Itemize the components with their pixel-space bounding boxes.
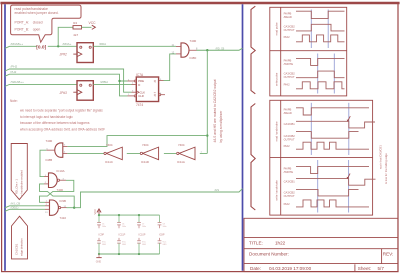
jumper JP2	[73, 81, 93, 101]
bus left	[4, 4, 6, 271]
ground GND	[98, 254, 100, 258]
waveform CA3/CB1 box3	[296, 121, 375, 128]
svg-text:GND: GND	[163, 244, 168, 246]
waveform PA/PB /WRITE box2	[296, 58, 345, 65]
svg-text:such that CA3/CB1: such that CA3/CB1	[378, 145, 382, 169]
waveform CA3/CB2 box3	[296, 132, 359, 139]
waveform PA/PB /WRITE box4	[296, 167, 369, 174]
svg-text:IC11C: IC11C	[105, 160, 113, 164]
svg-text:CA3/CB1: CA3/CB1	[284, 122, 296, 126]
pin numbers 11 12 8	[172, 44, 199, 55]
svg-text:100n: 100n	[102, 226, 106, 228]
supply VCC arrow	[92, 25, 96, 29]
svg-text:Document Number:: Document Number:	[249, 252, 289, 257]
junction on /RDA	[57, 45, 59, 47]
svg-text:CA1/CB1: CA1/CB1	[15, 243, 19, 255]
pennant label handshake enabled (down arrow box)	[11, 144, 27, 200]
wire R2 to VCC	[82, 26, 92, 28]
inverter chain wire	[67, 152, 207, 154]
svg-text:C5: C5	[102, 223, 104, 225]
wire feedback IC8D to IC8B input1	[67, 136, 207, 147]
svg-text:PHI2: PHI2	[284, 35, 290, 39]
capacitor column 1 (C + IC9P power)	[97, 215, 101, 254]
supply VCC bypass	[97, 209, 101, 213]
svg-text:100n: 100n	[142, 226, 146, 228]
svg-text:5/7: 5/7	[378, 266, 385, 271]
wire IC8B out down to IC10A	[40, 150, 46, 176]
svg-text:= handshake enabled: = handshake enabled	[20, 170, 24, 196]
svg-text:7410: 7410	[60, 216, 67, 220]
svg-text:/WRITE: /WRITE	[284, 170, 294, 174]
svg-text:CA3/CB2: CA3/CB2	[284, 24, 296, 28]
svg-text:IC9P: IC9P	[99, 233, 105, 236]
IC8B pins	[46, 146, 67, 153]
wire /PH2	[5, 69, 132, 92]
svg-text:/WRITE: /WRITE	[284, 62, 294, 66]
brace 1	[251, 6, 255, 94]
svg-text:PHI2: PHI2	[284, 202, 290, 206]
wire PH2 to PRE/CLR	[5, 74, 128, 96]
inverter IC11A	[177, 147, 195, 160]
svg-text:IC11P: IC11P	[119, 233, 126, 236]
brace 2	[251, 104, 255, 211]
waveform PHI2 box4	[296, 200, 369, 207]
svg-text:4k7: 4k7	[73, 33, 78, 37]
svg-text:IC8D: IC8D	[190, 56, 198, 60]
IC7A pin names	[138, 79, 157, 98]
inverter IC11C	[104, 147, 122, 160]
svg-text:JP#2: JP#2	[60, 53, 67, 57]
svg-text:7404: 7404	[142, 143, 149, 147]
svg-text:VCC: VCC	[93, 209, 97, 215]
svg-text:4/LS and HS are routed to CA2/: 4/LS and HS are routed to CA2/CB2 output	[213, 79, 217, 142]
IC8D pins	[176, 46, 197, 54]
svg-text:7404: 7404	[178, 143, 185, 147]
svg-text:PA/PB: PA/PB	[284, 58, 292, 62]
svg-text:/READ: /READ	[284, 15, 292, 19]
cursor lines box4	[317, 160, 319, 213]
junctions on rails	[98, 214, 100, 216]
svg-text:100n: 100n	[163, 226, 167, 228]
waveform PHI2 box3	[296, 142, 369, 149]
svg-text:GND: GND	[102, 244, 107, 246]
wire GND rail	[99, 253, 160, 255]
bus right	[242, 4, 244, 271]
svg-text:REV:: REV:	[383, 252, 394, 257]
svg-text:CA3/CB2: CA3/CB2	[284, 134, 296, 138]
wire /HS to bus	[74, 189, 242, 208]
nand IC8B (mirrored)	[55, 143, 63, 157]
svg-text:to interrupt logic and handsha: to interrupt logic and handshake logic	[20, 115, 73, 119]
svg-text:CA3/CB1: CA3/CB1	[284, 179, 296, 183]
svg-text:C8: C8	[163, 223, 165, 225]
waveform CA3/CB2 box1	[296, 24, 345, 31]
svg-text:1h22: 1h22	[275, 240, 286, 245]
svg-text:OUTPUT: OUTPUT	[284, 75, 295, 79]
svg-text:JP#3: JP#3	[60, 91, 67, 95]
junction feedback	[206, 134, 208, 136]
svg-text:write pulse: write pulse	[274, 72, 278, 86]
IC7A pin numbers	[128, 79, 162, 96]
svg-text:/PH2: /PH2	[11, 65, 18, 69]
svg-text:read handshake: read handshake	[274, 121, 278, 142]
svg-text:7404: 7404	[106, 143, 113, 147]
svg-text:/WDAB++: /WDAB++	[11, 80, 25, 84]
cursor lines box2	[317, 54, 319, 94]
svg-text:OUTPUT: OUTPUT	[284, 194, 295, 198]
svg-text:IC11D: IC11D	[141, 160, 149, 164]
svg-text:IC10A: IC10A	[57, 169, 65, 173]
waveform CA3/CB2 box2	[296, 71, 345, 78]
note text	[10, 99, 105, 132]
resistor R2	[73, 26, 82, 29]
wire Q to pin12	[164, 54, 177, 81]
svg-text:7400: 7400	[46, 139, 53, 143]
waveform PA/PB /READ box3	[296, 108, 369, 115]
svg-text:because of the difference betw: because of the difference between what h…	[20, 121, 90, 125]
svg-text:IC8P: IC8P	[159, 233, 165, 236]
svg-text:read pulse: read pulse	[274, 22, 278, 36]
svg-text:enabled when jumper closed.: enabled when jumper closed.	[15, 11, 59, 15]
waveform PA/PB /READ box1	[296, 11, 345, 18]
svg-text:7474: 7474	[136, 103, 143, 107]
capacitor column 2 (C + IC11P power)	[117, 215, 121, 254]
pennant label edge detection (up arrow box)	[12, 216, 28, 259]
svg-text:GND: GND	[142, 244, 147, 246]
svg-text:OUTPUT: OUTPUT	[284, 28, 295, 32]
svg-text:R2: R2	[73, 21, 77, 25]
wire /HS_CB from bus	[5, 206, 45, 208]
wire /OE(1) from bus	[5, 209, 45, 211]
svg-text:PA/PB: PA/PB	[284, 11, 292, 15]
svg-text:C6: C6	[122, 223, 124, 225]
svg-text:PHI2: PHI2	[284, 82, 290, 86]
svg-text:/RDA+: /RDA+	[63, 42, 72, 46]
note bubble (callout)	[11, 5, 81, 42]
svg-text:/HS_CB: /HS_CB	[11, 202, 21, 206]
wire to R2	[58, 27, 73, 46]
svg-text:edge detection: edge detection	[20, 238, 24, 256]
wire VCC rail	[99, 214, 160, 216]
svg-text:IC9B: IC9B	[60, 199, 66, 203]
svg-text:when accessing ORA-address 0x0: when accessing ORA-address 0x01 and ORA-…	[20, 128, 105, 132]
svg-text:IC7A: IC7A	[136, 73, 144, 77]
svg-text:PA/PB: PA/PB	[284, 166, 292, 170]
svg-text:PORT_A: closed: PORT_A: closed	[15, 20, 43, 24]
svg-text:IC11A: IC11A	[177, 160, 185, 164]
timing box 3: read handshake	[270, 100, 373, 215]
svg-text:CLR: CLR	[138, 94, 144, 98]
nand IC10A	[49, 173, 60, 188]
svg-text:100n: 100n	[122, 226, 126, 228]
waveform PHI2 box2	[296, 82, 345, 89]
flipflop IC7A	[136, 77, 158, 102]
note bubble text	[15, 7, 59, 31]
svg-text:/RDA: /RDA	[99, 42, 106, 46]
svg-text:7400: 7400	[190, 39, 197, 43]
svg-text:PHI2: PHI2	[284, 144, 290, 148]
svg-text:PORT_B: open: PORT_B: open	[15, 28, 41, 32]
svg-text:D: D	[138, 83, 140, 87]
svg-text:TITLE:: TITLE:	[249, 240, 263, 245]
svg-text:OUTPUT: OUTPUT	[284, 137, 295, 141]
svg-text:we need to route separate "por: we need to route separate "port output r…	[20, 109, 103, 113]
title block	[244, 218, 398, 271]
svg-text:VCC: VCC	[89, 21, 97, 25]
waveform CA3/CB2 box4	[296, 189, 359, 196]
nand IC9B (7410)	[50, 200, 61, 215]
wire SR cross path1 IC10A out to IC9B in1	[40, 180, 74, 202]
capacitor column 4 (C + IC8P power)	[158, 215, 162, 254]
wire SR cross path2 IC9B out to IC10A in2	[40, 184, 75, 208]
svg-text:PA/PB: PA/PB	[284, 108, 292, 112]
svg-text:Note:: Note:	[10, 99, 18, 103]
svg-text:PH2: PH2	[11, 70, 17, 74]
wire /WBH jumper2 to D	[93, 83, 131, 85]
inverter IC11D	[140, 147, 158, 160]
nand IC8D	[181, 43, 189, 57]
svg-text:is low for the falling edge: is low for the falling edge	[384, 153, 388, 184]
arrow marker box4	[348, 174, 350, 178]
svg-text:C7: C7	[142, 223, 144, 225]
svg-text:04.03.2019 17:09:00: 04.03.2019 17:09:00	[269, 266, 312, 271]
svg-text:RD_Cfm + 1: RD_Cfm + 1	[14, 179, 18, 194]
svg-text:CA3/CB2: CA3/CB2	[284, 191, 296, 195]
svg-text:GND: GND	[96, 260, 102, 263]
waveform CA3/CB1 box4	[296, 179, 376, 186]
junction IC9B out	[73, 207, 75, 209]
svg-text:GND: GND	[122, 244, 127, 246]
wire IC8D output to bus	[197, 48, 243, 50]
svg-text:/READ: /READ	[284, 111, 292, 115]
svg-text:/WBH: /WBH	[100, 80, 108, 84]
cursor lines box3	[310, 103, 312, 155]
svg-text:/HS: /HS	[215, 188, 220, 192]
svg-text:[0.0]: [0.0]	[36, 44, 46, 50]
wire /RDAB from bus	[5, 46, 77, 48]
IC7A pins	[128, 80, 166, 97]
timing box 1: read pulse	[270, 7, 347, 96]
svg-text:IC8B: IC8B	[46, 158, 53, 162]
wire /WDAB from bus	[5, 84, 77, 86]
cursor lines box1	[310, 10, 312, 49]
junction IC8D out	[206, 49, 208, 51]
waveform PHI2 box1	[296, 35, 345, 42]
jumper JP1	[73, 43, 93, 63]
svg-text:Date:: Date:	[250, 266, 261, 271]
svg-text:Sheet:: Sheet:	[358, 266, 371, 271]
svg-text:write handshake: write handshake	[274, 180, 278, 201]
arrow marker box3	[348, 116, 350, 120]
svg-text:CA3/CB2: CA3/CB2	[284, 71, 296, 75]
svg-text:/RD_CB: /RD_CB	[216, 47, 225, 50]
junction PRE branch	[118, 80, 120, 82]
wire vertical to inverter chain	[206, 50, 208, 153]
svg-text:/RDAB++: /RDAB++	[11, 42, 24, 46]
svg-text:/OE(1): /OE(1)	[11, 205, 19, 209]
svg-text:IC10P: IC10P	[139, 233, 146, 236]
svg-text:by using a multiplexer: by using a multiplexer	[219, 110, 223, 143]
capacitor column 3 (C + IC10P power)	[137, 215, 141, 254]
wire /RDA jumper1 to IC8D pin11	[93, 45, 176, 47]
